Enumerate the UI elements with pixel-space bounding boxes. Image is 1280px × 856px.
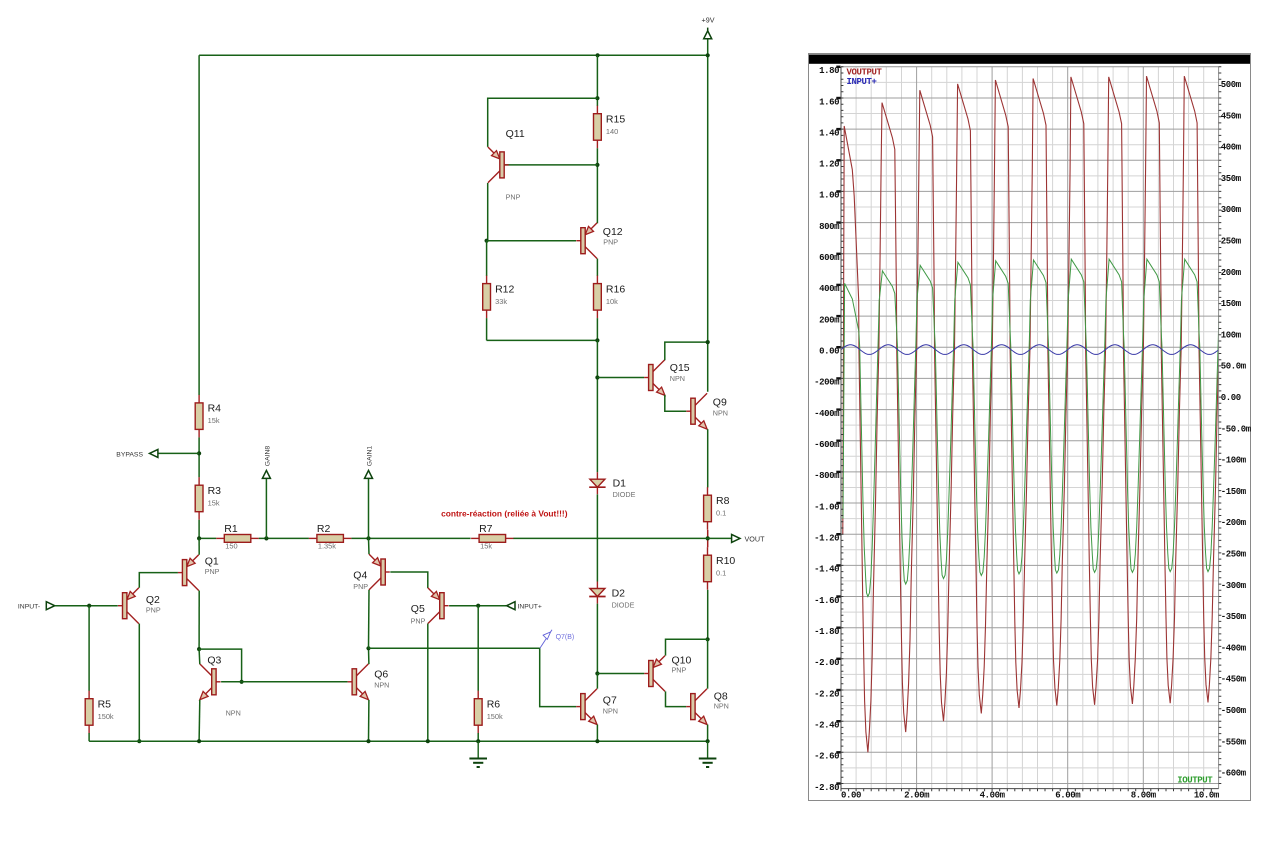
wire Q7 emitter down xyxy=(596,725,598,742)
trace INPUT+ (blue) xyxy=(841,345,1219,355)
wire Q1 collector down xyxy=(198,591,200,650)
trace IOUTPUT (green) xyxy=(843,259,1219,596)
wire D2 to Q7/Q10 node xyxy=(596,604,598,674)
svg-text:Q7(B): Q7(B) xyxy=(556,634,575,641)
wire Q3 emitter down xyxy=(198,700,201,741)
svg-text:Q5: Q5 xyxy=(411,603,425,615)
svg-text:4.00m: 4.00m xyxy=(980,790,1006,800)
svg-text:Q15: Q15 xyxy=(670,362,690,374)
resistor R7 xyxy=(471,535,513,543)
svg-text:1.35k: 1.35k xyxy=(318,542,336,551)
wire to VOUT terminal xyxy=(708,537,732,539)
wire Q5 base to INPUT+ xyxy=(449,605,506,607)
transistor Q6 (NPN) xyxy=(348,664,369,700)
node junction top rail / R15 branch xyxy=(596,53,600,57)
svg-text:R1: R1 xyxy=(224,523,238,535)
svg-text:-400m: -400m xyxy=(1221,643,1247,653)
svg-text:-800m: -800m xyxy=(814,471,840,481)
svg-text:33k: 33k xyxy=(495,297,507,306)
wire to R12 xyxy=(486,241,488,276)
node junction Q6 emitter / bottom rail xyxy=(366,739,370,743)
svg-text:600m: 600m xyxy=(819,253,840,263)
wire Q4 emitter up xyxy=(368,538,371,554)
svg-text:-300m: -300m xyxy=(1221,581,1247,591)
svg-text:0.00: 0.00 xyxy=(841,790,861,800)
svg-text:-100m: -100m xyxy=(1221,456,1247,466)
svg-text:Q6: Q6 xyxy=(374,668,388,680)
svg-text:INPUT-: INPUT- xyxy=(18,604,40,611)
transistor Q3 (NPN) xyxy=(200,664,221,700)
wire to R15 xyxy=(596,55,598,106)
svg-text:PNP: PNP xyxy=(146,606,161,615)
diode D1 xyxy=(589,472,605,494)
svg-text:10k: 10k xyxy=(606,297,618,306)
svg-text:Q7: Q7 xyxy=(603,694,617,706)
node junction Q5 collector / bottom rail xyxy=(426,739,430,743)
svg-text:NPN: NPN xyxy=(713,408,728,417)
node junction Q7 emitter / bottom rail xyxy=(595,739,599,743)
svg-text:R3: R3 xyxy=(208,485,222,497)
wire +9V stem xyxy=(707,39,709,56)
svg-text:R15: R15 xyxy=(606,114,625,126)
svg-text:400m: 400m xyxy=(1221,143,1242,153)
node junction Q15 collector / rail xyxy=(706,340,710,344)
svg-text:-1.40: -1.40 xyxy=(814,565,839,575)
node junction D2 / Q10 base / Q7 collector xyxy=(595,671,599,675)
transistor Q15 (NPN) xyxy=(644,360,665,396)
terminal VOUT xyxy=(732,534,740,542)
svg-text:Q11: Q11 xyxy=(506,128,525,140)
transistor Q9 (NPN) xyxy=(686,393,707,429)
node junction R16 bottom rail xyxy=(595,338,599,342)
svg-text:-2.40: -2.40 xyxy=(814,720,839,730)
svg-text:contre-réaction (reliée à Vout: contre-réaction (reliée à Vout!!!) xyxy=(441,508,568,518)
wire Q2 collector down xyxy=(138,624,140,742)
wire node B to R1 xyxy=(199,537,216,539)
wire Q1 emitter up xyxy=(198,538,200,554)
transistor Q10 (PNP) xyxy=(644,656,665,692)
svg-text:GAIN8: GAIN8 xyxy=(264,446,271,467)
svg-text:-500m: -500m xyxy=(1221,706,1247,716)
svg-text:NPN: NPN xyxy=(374,680,389,689)
svg-text:-200m: -200m xyxy=(814,378,840,388)
wire Q3 base to Q6 base xyxy=(221,681,348,683)
wire R6 bottom xyxy=(477,733,479,741)
svg-text:Q2: Q2 xyxy=(146,594,160,606)
svg-text:-2.00: -2.00 xyxy=(814,658,839,668)
svg-text:15k: 15k xyxy=(208,416,220,425)
wire Q3 collector up xyxy=(198,649,201,664)
node junction Q1 collector / Q3 xyxy=(197,647,201,651)
node junction INPUT- / R5 xyxy=(87,604,91,608)
svg-text:0.00: 0.00 xyxy=(1221,393,1241,403)
wire Q10 base xyxy=(597,673,644,675)
svg-text:-550m: -550m xyxy=(1221,737,1247,747)
svg-text:DIODE: DIODE xyxy=(613,490,636,499)
resistor R12 xyxy=(483,276,491,319)
svg-text:IOUTPUT: IOUTPUT xyxy=(1177,775,1213,785)
terminal INPUT- xyxy=(46,602,54,610)
wire Q12 collector to R16 xyxy=(596,259,598,276)
node junction Q15 base tap xyxy=(595,375,599,379)
ground near R6 xyxy=(469,741,487,767)
node junction Q11 emitter wire / R15 line xyxy=(595,96,599,100)
wire Q15 base xyxy=(597,377,644,379)
svg-text:1.20: 1.20 xyxy=(819,160,839,170)
terminal BYPASS xyxy=(150,449,158,457)
svg-text:150: 150 xyxy=(225,542,237,551)
node junction R6 / ground xyxy=(476,739,480,743)
svg-text:R5: R5 xyxy=(98,699,112,711)
svg-text:-150m: -150m xyxy=(1221,487,1247,497)
wire Q12 base xyxy=(487,240,576,242)
transistor Q12 (PNP) xyxy=(576,223,597,259)
terminal GAIN1 xyxy=(365,470,373,478)
svg-text:GAIN1: GAIN1 xyxy=(366,446,373,467)
svg-text:PNP: PNP xyxy=(672,665,687,674)
svg-text:-1.80: -1.80 xyxy=(814,627,839,637)
node junction Q3 base link xyxy=(240,680,244,684)
wire R4 to R3 xyxy=(198,437,200,477)
terminal GAIN8 xyxy=(262,470,270,478)
resistor R4 xyxy=(195,395,203,438)
svg-text:350m: 350m xyxy=(1221,174,1242,184)
wire Q15 emitter to Q9 base xyxy=(665,395,687,411)
svg-text:-1.20: -1.20 xyxy=(814,534,839,544)
resistor R8 xyxy=(704,487,712,530)
wire Q15 collector to +9V rail xyxy=(665,342,708,360)
svg-text:-200m: -200m xyxy=(1221,518,1247,528)
svg-text:R16: R16 xyxy=(606,283,625,295)
resistor R15 xyxy=(594,106,602,149)
svg-text:50.0m: 50.0m xyxy=(1221,362,1247,372)
wire R5 bottom xyxy=(88,733,90,741)
svg-text:10.0m: 10.0m xyxy=(1194,790,1220,800)
wire +9V right rail down xyxy=(707,55,709,392)
svg-text:PNP: PNP xyxy=(603,238,618,247)
svg-text:NPN: NPN xyxy=(603,706,618,715)
svg-text:D1: D1 xyxy=(613,478,627,490)
svg-text:1.00: 1.00 xyxy=(819,191,839,201)
svg-text:-1.60: -1.60 xyxy=(814,596,839,606)
node junction BYPASS xyxy=(197,451,201,455)
plot border xyxy=(841,67,1219,789)
wire Q6 emitter down xyxy=(368,700,370,741)
wire R16 bottom xyxy=(596,318,598,340)
plot right axis labels xyxy=(1221,80,1252,779)
wire BYPASS stem xyxy=(158,452,199,454)
power +9V terminal xyxy=(704,28,712,39)
transistor Q2 (PNP) xyxy=(118,588,139,624)
plot major gridlines xyxy=(841,67,1219,789)
wire to R5 xyxy=(88,606,90,691)
wire R10 to Q10/Q8 node xyxy=(707,590,709,640)
svg-text:DIODE: DIODE xyxy=(612,600,635,609)
svg-text:8.00m: 8.00m xyxy=(1131,790,1157,800)
svg-text:150k: 150k xyxy=(487,712,503,721)
node junction Q3 emitter / bottom rail xyxy=(197,739,201,743)
svg-text:140: 140 xyxy=(606,127,618,136)
wire Q7 collector up xyxy=(596,674,598,689)
svg-text:-2.60: -2.60 xyxy=(814,752,839,762)
wire R12/R16 bottom link xyxy=(487,339,598,341)
svg-text:-2.20: -2.20 xyxy=(814,689,839,699)
svg-text:500m: 500m xyxy=(1221,80,1242,90)
svg-text:200m: 200m xyxy=(819,315,840,325)
svg-text:2.00m: 2.00m xyxy=(904,790,930,800)
wire +9V top rail xyxy=(199,54,708,56)
svg-text:R8: R8 xyxy=(716,495,730,507)
wire R15 to Q12 emitter xyxy=(596,148,598,223)
svg-text:R4: R4 xyxy=(208,403,222,415)
svg-text:-350m: -350m xyxy=(1221,612,1247,622)
node junction GAIN1 / Q4 emitter xyxy=(366,536,370,540)
node junction R6 tap xyxy=(476,604,480,608)
transistor Q7 (NPN) xyxy=(576,689,597,725)
ground main xyxy=(699,741,717,767)
wire Q4/Q6 collector node to Q7 base xyxy=(369,648,577,706)
svg-text:1.40: 1.40 xyxy=(819,128,839,138)
resistor R10 xyxy=(704,547,712,590)
resistor R16 xyxy=(594,276,602,319)
resistor R1 xyxy=(216,535,258,543)
wire GAIN1 stem xyxy=(368,479,370,539)
wire GAIN8 stem xyxy=(265,479,267,539)
node junction Q11 collector / Q12 base / R12 xyxy=(485,239,489,243)
wire left rail down to R4 xyxy=(198,55,200,395)
svg-text:150k: 150k xyxy=(98,712,114,721)
wire Q10 collector to Q8 base xyxy=(666,691,687,706)
wire Q6 collector up xyxy=(368,648,370,664)
svg-text:INPUT+: INPUT+ xyxy=(518,604,542,611)
svg-text:R12: R12 xyxy=(495,283,514,295)
svg-text:NPN: NPN xyxy=(226,708,241,717)
node junction Q2 collector / bottom rail xyxy=(137,739,141,743)
wire bottom rail xyxy=(89,740,708,742)
svg-text:PNP: PNP xyxy=(411,617,426,626)
transistor Q8 (NPN) xyxy=(686,689,707,725)
svg-text:0.1: 0.1 xyxy=(716,509,726,518)
svg-text:450m: 450m xyxy=(1221,111,1242,121)
svg-text:Q4: Q4 xyxy=(353,570,367,582)
svg-text:200m: 200m xyxy=(1221,268,1242,278)
plot window frame xyxy=(809,54,1251,801)
svg-text:Q12: Q12 xyxy=(603,226,623,238)
resistor R3 xyxy=(195,477,203,520)
svg-text:-250m: -250m xyxy=(1221,550,1247,560)
wire Q11 collector down xyxy=(487,183,489,241)
svg-text:0.00: 0.00 xyxy=(819,347,839,357)
transistor Q1 (PNP) xyxy=(178,555,199,591)
svg-text:PNP: PNP xyxy=(205,567,220,576)
transistor Q4 (PNP) xyxy=(369,554,390,590)
svg-text:Q1: Q1 xyxy=(205,555,219,567)
svg-text:BYPASS: BYPASS xyxy=(116,451,143,458)
wire Q10 emitter to node xyxy=(666,639,708,655)
svg-text:PNP: PNP xyxy=(506,193,521,202)
wire Q5 collector down xyxy=(427,624,429,742)
wire Q3 collector-base link xyxy=(199,649,242,682)
svg-text:R2: R2 xyxy=(317,523,331,535)
wire R2 to R7 xyxy=(351,537,470,539)
plot major tick blocks xyxy=(836,66,840,785)
svg-text:R10: R10 xyxy=(716,555,735,567)
plot x axis labels xyxy=(841,790,1220,800)
svg-text:-1.00: -1.00 xyxy=(814,502,839,512)
svg-text:-450m: -450m xyxy=(1221,675,1247,685)
svg-text:+9V: +9V xyxy=(702,15,715,24)
wire D1 to D2 xyxy=(596,494,598,581)
plot axis ticks xyxy=(841,67,1221,792)
resistor R2 xyxy=(309,535,352,543)
node junction Q11 base / R15 bottom / Q12 emitter xyxy=(595,163,599,167)
node junction Q4/Q6 collectors xyxy=(366,646,370,650)
wire Q11 base to R15 bottom xyxy=(505,164,598,166)
node junction top rail / +9V xyxy=(706,53,710,57)
trace VOUTPUT (red) xyxy=(843,76,1221,752)
node junction GAIN8 xyxy=(264,536,268,540)
svg-text:Q3: Q3 xyxy=(207,655,221,667)
wire R7 to VOUT node xyxy=(513,537,707,539)
svg-text:-2.80: -2.80 xyxy=(814,783,839,793)
wire to R6 xyxy=(477,606,479,691)
svg-text:-600m: -600m xyxy=(1221,769,1247,779)
plot left axis labels xyxy=(814,66,840,793)
svg-text:-600m: -600m xyxy=(814,440,840,450)
wire Q8 collector up xyxy=(707,639,709,688)
node junction R3 / R1 / Q1 emitter xyxy=(197,536,201,540)
diode D2 xyxy=(589,582,605,604)
svg-text:100m: 100m xyxy=(1221,330,1242,340)
node junction Q8 emitter / ground xyxy=(706,739,710,743)
transistor Q11 (PNP) xyxy=(488,147,509,183)
transistor Q5 (PNP) xyxy=(428,588,449,624)
annotation arrow Q7(B) xyxy=(540,630,552,648)
svg-text:VOUT: VOUT xyxy=(745,534,766,543)
wire Q4 base to Q5 emitter xyxy=(390,572,428,588)
svg-text:Q9: Q9 xyxy=(713,397,727,409)
wire R3 to node B xyxy=(198,520,200,539)
svg-text:1.60: 1.60 xyxy=(819,97,839,107)
plot minor gridlines xyxy=(841,67,1219,789)
svg-text:250m: 250m xyxy=(1221,237,1242,247)
svg-text:6.00m: 6.00m xyxy=(1055,790,1081,800)
svg-text:D2: D2 xyxy=(612,588,626,600)
svg-text:NPN: NPN xyxy=(670,374,685,383)
svg-text:15k: 15k xyxy=(208,499,220,508)
svg-text:INPUT+: INPUT+ xyxy=(847,77,877,87)
node junction VOUT xyxy=(706,536,710,540)
node junction Q10 emitter / Q8 collector xyxy=(706,637,710,641)
svg-text:300m: 300m xyxy=(1221,205,1242,215)
svg-text:-400m: -400m xyxy=(814,409,840,419)
wire down to D1 xyxy=(596,340,598,472)
svg-text:R7: R7 xyxy=(479,523,493,535)
svg-text:R6: R6 xyxy=(487,699,501,711)
resistor R6 xyxy=(474,691,482,734)
terminal INPUT+ xyxy=(507,602,515,610)
wire Q9 emitter to R8 xyxy=(707,429,709,487)
svg-text:400m: 400m xyxy=(819,284,840,294)
wire Q8 emitter down xyxy=(707,725,709,742)
svg-text:PNP: PNP xyxy=(353,582,368,591)
plot title bar xyxy=(809,55,1250,64)
resistor R5 xyxy=(85,691,93,734)
wire R12 bottom xyxy=(486,318,488,340)
wire Q2 emitter to Q1 base xyxy=(139,573,178,588)
svg-text:15k: 15k xyxy=(480,542,492,551)
svg-text:800m: 800m xyxy=(819,222,840,232)
svg-text:0.1: 0.1 xyxy=(716,569,726,578)
wire Q4 collector down xyxy=(368,590,371,648)
wire INPUT- to Q2 base xyxy=(55,605,118,607)
svg-text:150m: 150m xyxy=(1221,299,1242,309)
svg-text:NPN: NPN xyxy=(714,701,729,710)
svg-text:1.80: 1.80 xyxy=(819,66,839,76)
wire R8 to R10 through VOUT node xyxy=(707,530,709,548)
svg-text:-50.0m: -50.0m xyxy=(1221,424,1252,434)
wire R1 to R2 xyxy=(259,537,309,539)
wire Q11 emitter to top xyxy=(488,98,598,147)
